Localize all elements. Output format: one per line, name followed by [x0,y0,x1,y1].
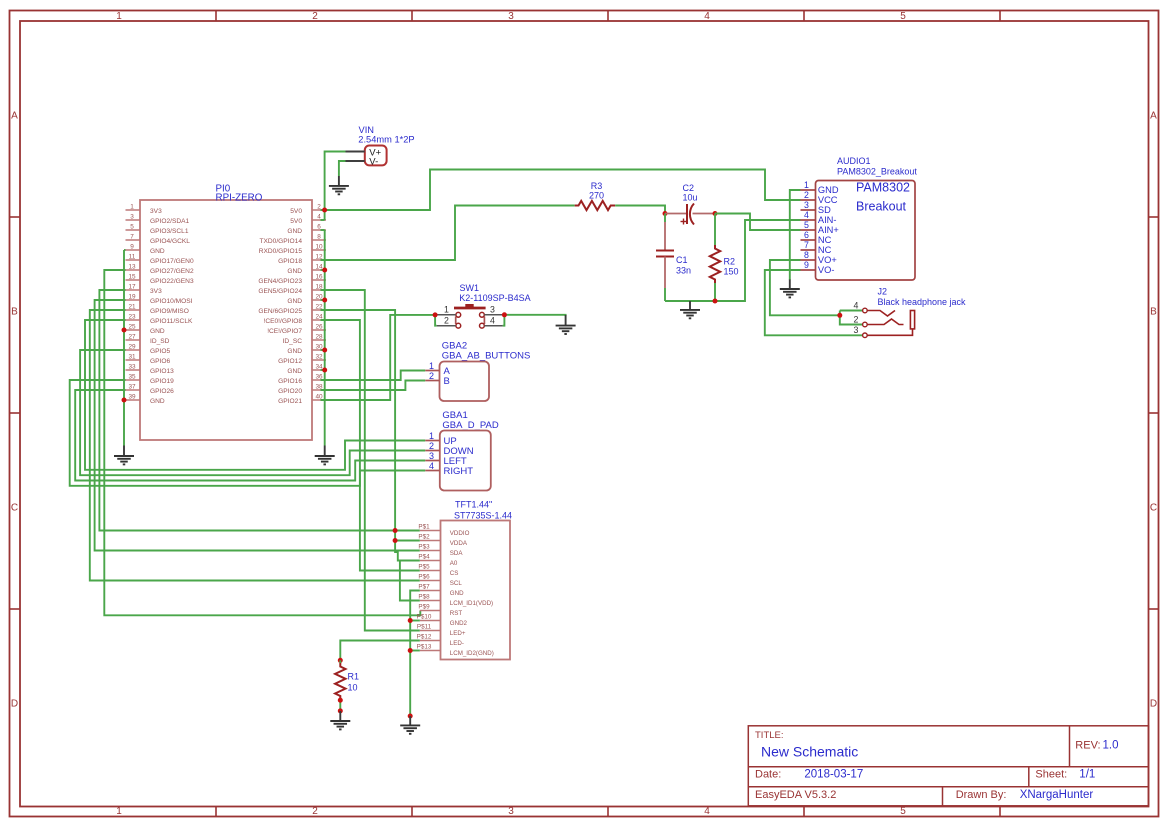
junction node TFT P$13 [408,648,413,653]
junction node J2 VO+ [837,313,842,318]
svg-text:GND: GND [150,248,165,255]
svg-text:28: 28 [315,334,323,341]
svg-text:1: 1 [116,806,122,817]
svg-text:GPIO12: GPIO12 [278,358,302,365]
svg-text:GEN/6GPIO25: GEN/6GPIO25 [258,308,302,315]
svg-text:C1: C1 [676,255,688,265]
wire TFT GND chain P$7/P$10/P$13 [410,591,420,717]
svg-text:RST: RST [450,610,463,617]
junction node PI0 pin2 / VIN [322,208,327,213]
svg-text:RIGHT: RIGHT [444,466,474,477]
svg-text:LED-: LED- [450,640,464,647]
svg-text:10: 10 [348,683,358,693]
svg-text:P$13: P$13 [417,644,432,651]
svg-text:32: 32 [315,354,323,361]
switch SW1 K2-1109SP-B4SA [437,283,531,328]
junction node TFT P$10 [408,618,413,623]
svg-text:17: 17 [128,284,136,291]
svg-text:3: 3 [429,451,434,461]
svg-text:VIN: VIN [359,125,375,135]
svg-text:P$7: P$7 [418,584,430,591]
svg-text:GPIO21: GPIO21 [278,398,302,405]
svg-text:VDDA: VDDA [450,540,468,547]
svg-text:TITLE:: TITLE: [755,730,784,741]
svg-text:5V0: 5V0 [290,218,302,225]
svg-text:39: 39 [128,394,136,401]
svg-text:4: 4 [704,11,710,22]
svg-text:2: 2 [312,11,318,22]
svg-text:SDA: SDA [450,550,464,557]
svg-text:V-: V- [369,157,378,168]
wire VIN V- to ground [339,161,346,176]
svg-text:4: 4 [804,210,809,220]
wire TFT P$12 (LED-) to R1 [340,641,420,661]
svg-text:Black headphone jack: Black headphone jack [878,297,967,307]
svg-text:GPIO9/MISO: GPIO9/MISO [150,308,189,315]
capacitor C2 10u (polarized) [665,183,715,225]
junction node C2 right / R2 top [713,211,718,216]
J2 pin numbers [854,300,859,335]
capacitor C1 33n [656,214,691,302]
resistor R2 150 [710,214,739,302]
junction node R1 bottom [338,698,343,703]
svg-text:15: 15 [128,274,136,281]
svg-text:EasyEDA V5.3.2: EasyEDA V5.3.2 [755,789,836,801]
svg-text:NC: NC [818,235,832,245]
svg-text:GPIO20: GPIO20 [278,388,302,395]
svg-text:1: 1 [130,204,134,211]
ground below TFT [400,716,420,734]
svg-text:P$11: P$11 [417,624,432,631]
svg-text:GPIO6: GPIO6 [150,358,170,365]
svg-text:LCM_ID1(VDD): LCM_ID1(VDD) [450,600,493,607]
svg-text:4: 4 [854,300,859,310]
svg-text:2: 2 [444,316,449,326]
svg-text:10u: 10u [683,193,698,203]
svg-text:PAM8302_Breakout: PAM8302_Breakout [837,167,917,177]
ground at AUDIO1 [780,280,800,298]
svg-text:P$1: P$1 [418,524,430,531]
svg-text:8: 8 [317,234,321,241]
svg-text:Breakout: Breakout [856,200,907,214]
svg-text:GPIO22/GEN3: GPIO22/GEN3 [150,278,194,285]
svg-text:ID_SC: ID_SC [283,338,303,345]
connector GBA1 GBA_D_PAD [425,410,499,491]
wire PI0 pin36 to GBA2 A [321,371,426,381]
svg-text:23: 23 [128,314,136,321]
IC PI0 RPI-ZERO [126,184,327,441]
svg-text:!CE!/GPIO7: !CE!/GPIO7 [267,328,302,335]
svg-text:Drawn By:: Drawn By: [956,789,1007,801]
svg-text:GPIO10/MOSI: GPIO10/MOSI [150,298,193,305]
svg-text:GND: GND [818,185,839,195]
svg-text:3V3: 3V3 [150,288,162,295]
junction node SW1 pin3 [502,312,507,317]
svg-text:3V3: 3V3 [150,208,162,215]
ground at C1/R2 rail [680,301,700,318]
svg-text:K2-1109SP-B4SA: K2-1109SP-B4SA [459,293,530,303]
svg-text:GPIO5: GPIO5 [150,348,170,355]
svg-text:9: 9 [804,260,809,270]
svg-text:RPI-ZERO: RPI-ZERO [216,192,263,203]
svg-text:2018-03-17: 2018-03-17 [804,768,863,780]
title block [748,726,1148,806]
svg-text:TXD0/GPIO14: TXD0/GPIO14 [259,238,302,245]
wire PI0 pin19 to TFT P$3 [95,300,420,551]
wire AUDIO1 GND to ground [790,190,801,280]
AUDIO1 pins [801,180,839,275]
svg-text:RXD0/GPIO15: RXD0/GPIO15 [259,248,303,255]
svg-text:C: C [11,503,18,514]
svg-text:P$3: P$3 [418,544,430,551]
wire PI0 pin21 to TFT P$6 [90,310,420,581]
SW1 pin leads and numbers [437,305,503,326]
svg-text:5: 5 [900,806,906,817]
wire PI0 pin18 to TFT P$11 (LED+) [321,290,420,631]
svg-text:A: A [1150,111,1157,122]
svg-text:16: 16 [315,274,323,281]
svg-text:P$6: P$6 [418,574,430,581]
svg-text:VCC: VCC [818,195,838,205]
svg-text:2: 2 [854,314,859,324]
svg-text:2: 2 [429,371,434,381]
svg-text:SD: SD [818,205,831,215]
svg-text:1: 1 [444,305,449,315]
svg-text:VDDIO: VDDIO [450,530,470,537]
svg-text:GPIO3/SCL1: GPIO3/SCL1 [150,228,189,235]
svg-text:21: 21 [128,304,136,311]
junction nodes on left GND trunk [122,328,127,403]
wire GND net right of PI0 (pins 6,14,20,30,34) [321,230,325,446]
svg-text:AUDIO1: AUDIO1 [837,156,871,166]
svg-text:8: 8 [804,250,809,260]
svg-text:2: 2 [804,190,809,200]
svg-text:35: 35 [128,374,136,381]
svg-text:GEN5/GPIO24: GEN5/GPIO24 [258,288,302,295]
svg-text:31: 31 [128,354,136,361]
svg-text:GPIO13: GPIO13 [150,368,174,375]
svg-text:SCL: SCL [450,580,463,587]
svg-text:D: D [1150,699,1157,710]
svg-text:A: A [11,111,18,122]
svg-text:9: 9 [130,244,134,251]
GBA1 pins [425,431,474,477]
junction nodes on right GND trunk [322,268,327,373]
svg-text:ID_SD: ID_SD [150,338,170,345]
svg-text:1: 1 [804,180,809,190]
J2 contacts and sleeve [867,311,914,336]
svg-text:VO+: VO+ [818,255,837,265]
svg-text:1: 1 [429,431,434,441]
svg-text:150: 150 [724,267,739,277]
svg-text:33: 33 [128,364,136,371]
svg-text:1: 1 [429,361,434,371]
svg-text:P$5: P$5 [418,564,430,571]
wire SW1 pin3/pin4 to ground [503,315,566,326]
svg-text:VO-: VO- [818,265,835,275]
junction node C2 left / C1 top [663,211,668,216]
svg-text:6: 6 [804,230,809,240]
svg-text:GND: GND [450,590,464,597]
svg-text:3: 3 [508,806,514,817]
svg-text:GPIO16: GPIO16 [278,378,302,385]
svg-text:3: 3 [854,325,859,335]
svg-text:2: 2 [312,806,318,817]
svg-text:GEN4/GPIO23: GEN4/GPIO23 [258,278,302,285]
svg-text:P$2: P$2 [418,534,430,541]
svg-text:13: 13 [128,264,136,271]
svg-text:5: 5 [130,224,134,231]
svg-text:GPIO26: GPIO26 [150,388,174,395]
wire PI0 pin17 to TFT P$1 [99,290,419,531]
resistor R1 10 [335,660,359,711]
svg-text:19: 19 [128,294,136,301]
svg-text:J2: J2 [878,287,888,297]
wire SW1 pin1-pin2 hook [435,315,437,326]
svg-text:P$9: P$9 [418,604,430,611]
svg-text:!CE0!/GPIO8: !CE0!/GPIO8 [264,318,303,325]
wire net +5V: VIN V+ to PI0 pins 2/4 and AUDIO1 VCC [321,152,801,221]
J2 pin circles [863,308,868,337]
svg-text:2: 2 [429,441,434,451]
svg-text:GBA_AB_BUTTONS: GBA_AB_BUTTONS [442,351,531,362]
svg-text:Date:: Date: [755,768,781,780]
svg-text:4: 4 [490,316,495,326]
svg-text:D: D [11,699,18,710]
IC TFT1.44" ST7735S-1.44 [417,500,512,660]
svg-text:B: B [444,376,450,387]
junction node TFT P$2 [393,538,398,543]
svg-text:ST7735S-1.44: ST7735S-1.44 [454,511,512,521]
PI0 pins (stubs, numbers, names) [126,204,327,406]
svg-text:P$12: P$12 [417,634,432,641]
svg-text:NC: NC [818,245,832,255]
connector VIN 2.54mm 1*2P [346,125,415,168]
svg-text:GND: GND [287,228,302,235]
connector J2 Black headphone jack [854,287,967,338]
svg-text:3: 3 [130,214,134,221]
svg-text:3: 3 [490,305,495,315]
svg-text:R1: R1 [348,672,360,682]
svg-text:GPIO2/SDA1: GPIO2/SDA1 [150,218,190,225]
svg-text:P$8: P$8 [418,594,430,601]
IC AUDIO1 PAM8302_Breakout [801,156,918,280]
wire TFT VDD chain P$1/P$2/P$4/P$8 [395,531,420,601]
svg-text:7: 7 [130,234,134,241]
svg-text:GPIO4/GCKL: GPIO4/GCKL [150,238,190,245]
junction node SW1 pin1 [433,312,438,317]
svg-text:33n: 33n [676,266,691,276]
svg-text:C2: C2 [683,183,695,193]
svg-text:Sheet:: Sheet: [1035,768,1067,780]
svg-text:AIN+: AIN+ [818,225,839,235]
ground below PI0 left [114,446,134,465]
svg-text:3: 3 [508,11,514,22]
ground at SW1 [556,315,576,334]
svg-text:29: 29 [128,344,136,351]
svg-text:LED+: LED+ [450,630,466,637]
svg-text:GND2: GND2 [450,620,468,627]
svg-text:11: 11 [129,254,136,261]
svg-text:TFT1.44": TFT1.44" [455,500,492,510]
svg-text:P$10: P$10 [417,614,432,621]
resistor R3 270 [575,181,616,210]
svg-text:GPIO18: GPIO18 [278,258,302,265]
junction node R1 top [338,658,343,663]
svg-text:4: 4 [429,461,434,471]
svg-text:5: 5 [804,220,809,230]
svg-text:GND: GND [287,298,302,305]
svg-text:GND: GND [150,328,165,335]
SW1 pin circles [456,312,484,328]
wire PI0 pin35 to GBA1 RIGHT [70,380,426,486]
wire PI0 pin37 to GBA1 LEFT [75,390,425,481]
svg-text:10: 10 [315,244,323,251]
svg-text:37: 37 [128,384,136,391]
wire PI0 pin13 to TFT RST [104,270,420,615]
svg-text:7: 7 [804,240,809,250]
svg-text:GPIO27/GEN2: GPIO27/GEN2 [150,268,194,275]
ground below PI0 right [315,446,335,465]
ground below R1 [330,711,350,729]
svg-text:CS: CS [450,570,459,577]
wire net PWM audio: PI0 pin12 to R3 [321,206,575,261]
ground at VIN [329,176,349,194]
junction node R1 ground [338,708,343,713]
svg-text:B: B [1150,307,1157,318]
wire PI0 pin29 to GBA1 DOWN [80,350,425,475]
junction node TFT P$1 [393,528,398,533]
svg-text:PAM8302: PAM8302 [856,181,910,195]
connector GBA2 GBA_AB_BUTTONS [425,341,530,402]
svg-text:5V0: 5V0 [290,208,302,215]
svg-text:27: 27 [128,334,136,341]
wire ground rail under C1/R2 and to AUDIO1 AIN- [665,220,801,301]
svg-text:GND: GND [287,268,302,275]
svg-text:GND: GND [287,348,302,355]
svg-text:GPIO17/GEN0: GPIO17/GEN0 [150,258,194,265]
wire GND net left of PI0 (pins 9,25,39) [124,250,126,446]
svg-text:AIN-: AIN- [818,215,837,225]
svg-text:270: 270 [589,190,604,200]
svg-text:3: 3 [804,200,809,210]
junction node R2 bottom [713,299,718,304]
svg-text:GND: GND [287,368,302,375]
wire AUDIO1 VO- to J2 pin 3 [765,270,863,335]
wire PI0 pin22 trunk down to TFT VDD node [321,310,396,531]
svg-text:GPIO11/SCLK: GPIO11/SCLK [150,318,193,325]
svg-text:REV:: REV: [1075,740,1100,752]
wire R3 to C2 node [615,206,665,214]
svg-text:SW1: SW1 [460,283,480,293]
svg-text:LCM_ID2(GND): LCM_ID2(GND) [450,650,494,657]
svg-text:GBA_D_PAD: GBA_D_PAD [442,420,498,431]
svg-text:New Schematic: New Schematic [761,743,858,759]
svg-text:2.54mm 1*2P: 2.54mm 1*2P [358,135,414,145]
wire C2 node to AUDIO1 AIN+ [715,214,801,231]
junction node TFT ground [408,714,413,719]
svg-text:P$4: P$4 [418,554,430,561]
wire PI0 pin24 to TFT P$5 [321,320,420,571]
svg-text:B: B [11,307,18,318]
wire PI0 pin38 to GBA2 B [321,381,426,391]
GBA2 pins [425,361,450,387]
wire PI0 pin23 to GBA1 UP [85,320,425,470]
svg-text:A0: A0 [450,560,458,567]
svg-text:1: 1 [116,11,122,22]
svg-text:GPIO19: GPIO19 [150,378,174,385]
svg-text:26: 26 [315,324,323,331]
svg-text:XNargaHunter: XNargaHunter [1020,789,1094,801]
svg-text:GND: GND [150,398,165,405]
TFT pins [417,524,494,658]
svg-text:1.0: 1.0 [1103,740,1119,752]
wire SW1 net trunk (joins PI0 pin40) [321,315,436,400]
svg-text:4: 4 [704,806,710,817]
svg-text:R2: R2 [724,257,736,267]
svg-text:1/1: 1/1 [1079,768,1095,780]
svg-text:5: 5 [900,11,906,22]
wire AUDIO1 VO+ to J2 pins 4 and 2 [770,260,863,325]
svg-text:C: C [1150,503,1157,514]
svg-text:25: 25 [128,324,136,331]
